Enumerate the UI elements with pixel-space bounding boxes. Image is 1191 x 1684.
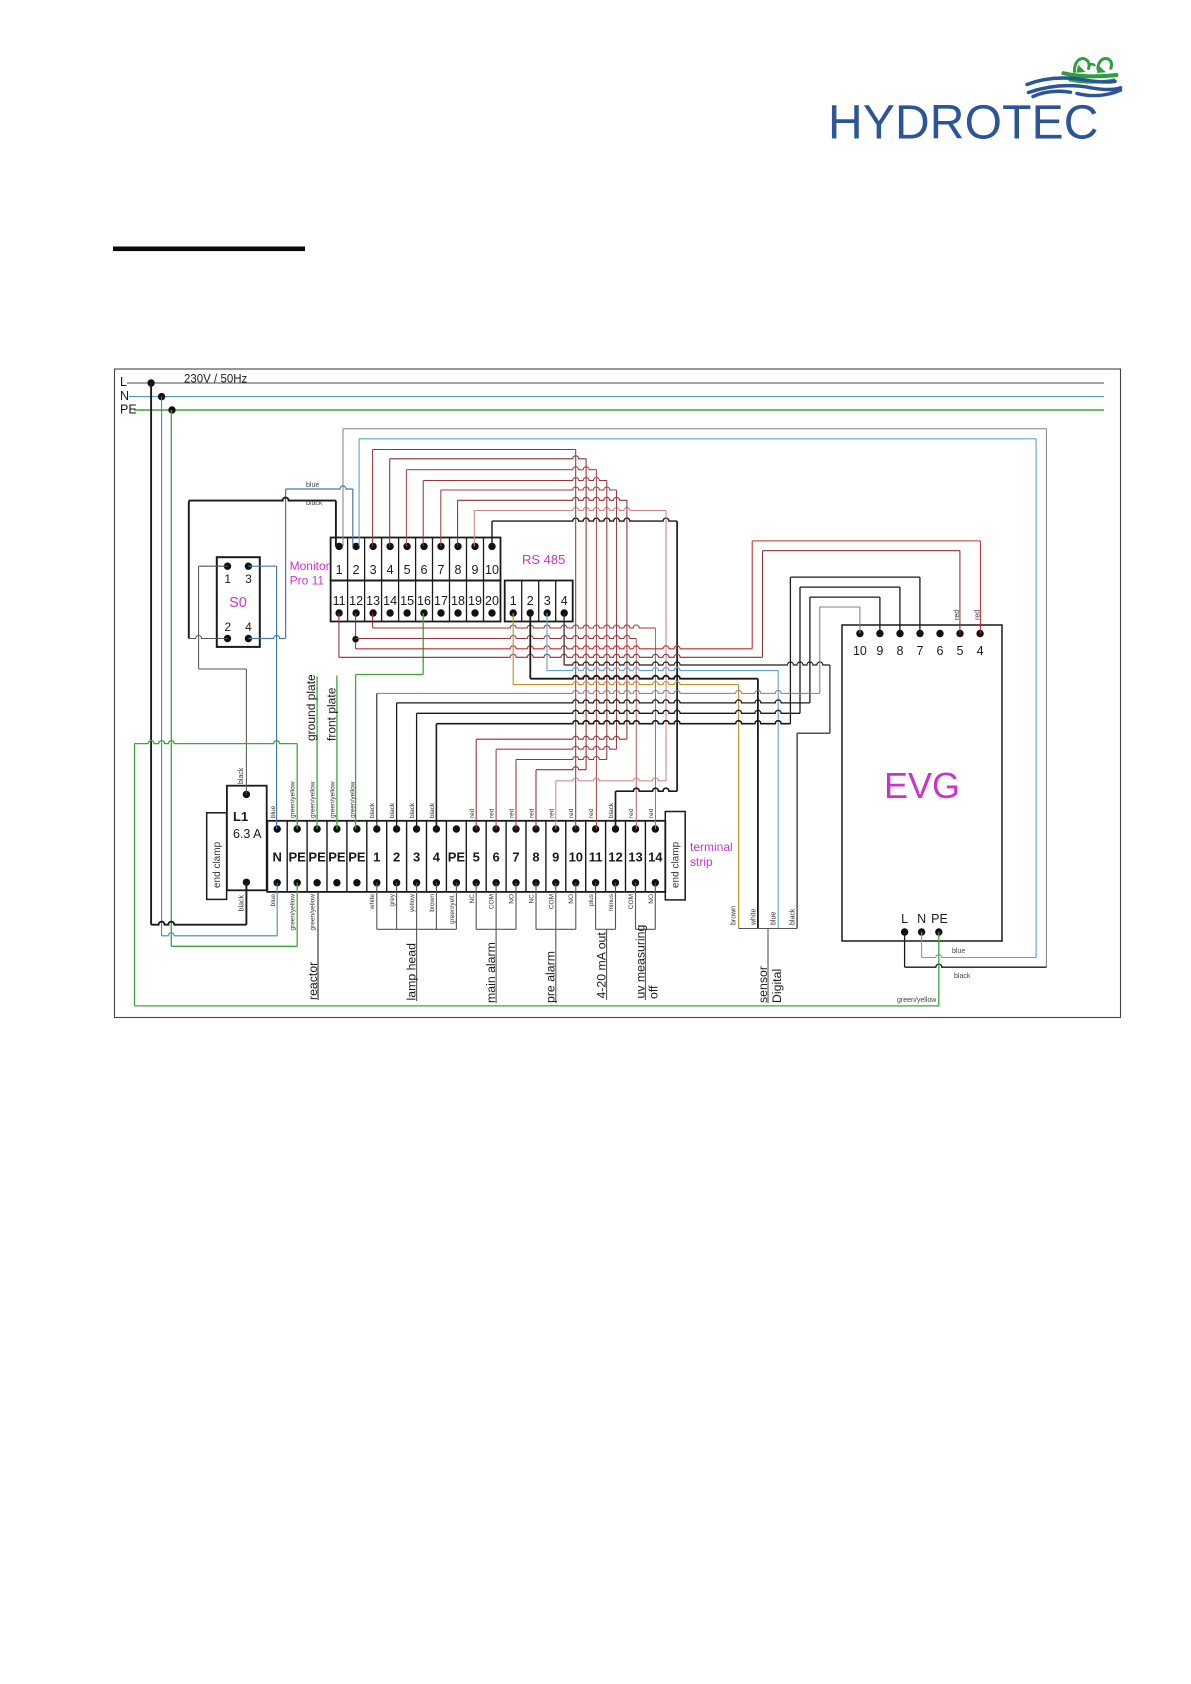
svg-text:black: black (369, 802, 376, 818)
svg-text:L: L (120, 375, 127, 389)
svg-text:green/yellow: green/yellow (310, 781, 317, 818)
svg-text:Digital: Digital (770, 969, 784, 1003)
svg-text:2: 2 (527, 594, 534, 608)
svg-text:sensor: sensor (756, 966, 770, 1003)
svg-text:10: 10 (569, 850, 583, 865)
svg-text:PE: PE (120, 403, 137, 417)
svg-text:PE: PE (328, 850, 346, 865)
svg-text:end clamp: end clamp (670, 841, 681, 888)
svg-text:15: 15 (400, 594, 414, 608)
svg-text:PE: PE (931, 912, 948, 926)
svg-text:green/yellow: green/yellow (290, 781, 297, 818)
svg-text:end clamp: end clamp (212, 841, 223, 888)
svg-text:1: 1 (336, 563, 343, 577)
svg-text:13: 13 (628, 850, 642, 865)
svg-text:red: red (548, 808, 555, 818)
svg-text:14: 14 (383, 594, 397, 608)
svg-text:L: L (901, 912, 908, 926)
svg-text:blue: blue (270, 805, 277, 818)
svg-text:black: black (239, 895, 246, 912)
svg-text:yellow: yellow (409, 894, 416, 912)
svg-text:7: 7 (917, 644, 924, 658)
svg-text:black: black (954, 973, 971, 980)
svg-text:4-20 mA out: 4-20 mA out (595, 932, 609, 999)
svg-text:black: black (306, 500, 323, 507)
svg-text:9: 9 (876, 644, 883, 658)
svg-text:9: 9 (552, 850, 559, 865)
svg-text:green/yellow: green/yellow (897, 997, 937, 1004)
svg-text:10: 10 (853, 644, 867, 658)
svg-text:5: 5 (404, 563, 411, 577)
svg-text:6: 6 (492, 850, 499, 865)
svg-text:RS 485: RS 485 (522, 552, 565, 567)
svg-text:PE: PE (289, 850, 307, 865)
svg-text:front plate: front plate (325, 687, 339, 741)
svg-text:2: 2 (224, 620, 231, 634)
svg-text:main alarm: main alarm (484, 942, 498, 1003)
svg-text:green/yellow: green/yellow (310, 894, 317, 931)
svg-text:7: 7 (438, 563, 445, 577)
svg-text:20: 20 (485, 594, 499, 608)
svg-text:plus: plus (588, 893, 595, 906)
svg-text:11: 11 (589, 850, 603, 865)
svg-text:8: 8 (897, 644, 904, 658)
svg-text:3: 3 (544, 594, 551, 608)
svg-text:NO: NO (509, 894, 516, 904)
svg-text:red: red (648, 808, 655, 818)
svg-text:black: black (429, 802, 436, 818)
svg-text:white: white (751, 909, 758, 926)
svg-text:1: 1 (373, 850, 380, 865)
svg-text:black: black (238, 767, 245, 784)
svg-text:1: 1 (224, 572, 231, 586)
svg-text:4: 4 (433, 850, 441, 865)
svg-text:uv measuring: uv measuring (633, 925, 647, 999)
svg-text:3: 3 (245, 572, 252, 586)
svg-text:brown: brown (731, 906, 738, 925)
svg-text:red: red (469, 808, 476, 818)
svg-text:12: 12 (608, 850, 622, 865)
svg-text:blue: blue (952, 948, 965, 955)
svg-text:red: red (529, 808, 536, 818)
svg-text:red: red (568, 808, 575, 818)
svg-text:red: red (628, 808, 635, 818)
svg-text:3: 3 (413, 850, 420, 865)
svg-text:lamp head: lamp head (404, 943, 418, 1001)
svg-text:S0: S0 (229, 595, 247, 611)
svg-text:4: 4 (561, 594, 568, 608)
svg-text:green/yellow: green/yellow (329, 781, 336, 818)
svg-text:6: 6 (937, 644, 944, 658)
svg-text:5: 5 (957, 644, 964, 658)
svg-text:8: 8 (455, 563, 462, 577)
svg-text:blue: blue (306, 482, 319, 489)
svg-text:brown: brown (429, 894, 436, 912)
svg-text:blue: blue (771, 912, 778, 925)
svg-text:6: 6 (421, 563, 428, 577)
svg-text:13: 13 (366, 594, 380, 608)
svg-text:Monitor: Monitor (290, 559, 330, 573)
svg-text:2: 2 (393, 850, 400, 865)
svg-text:pre alarm: pre alarm (544, 951, 558, 1003)
svg-text:terminal: terminal (690, 840, 733, 854)
svg-text:COM: COM (628, 894, 635, 909)
svg-text:green/yellow: green/yellow (290, 894, 297, 931)
svg-text:off: off (647, 985, 661, 999)
svg-text:Pro 11: Pro 11 (290, 574, 325, 588)
svg-text:NC: NC (469, 894, 476, 904)
svg-text:L1: L1 (233, 809, 248, 824)
svg-text:N: N (273, 850, 282, 865)
svg-text:EVG: EVG (884, 765, 960, 806)
svg-text:COM: COM (489, 894, 496, 909)
svg-text:COM: COM (548, 894, 555, 909)
svg-text:minus: minus (608, 893, 615, 911)
svg-text:3: 3 (370, 563, 377, 577)
svg-text:red: red (509, 808, 516, 818)
svg-text:NO: NO (568, 894, 575, 904)
svg-text:230V / 50Hz: 230V / 50Hz (184, 374, 248, 386)
svg-text:strip: strip (690, 855, 713, 869)
svg-text:black: black (790, 908, 797, 925)
svg-text:black: black (409, 802, 416, 818)
svg-text:PE: PE (308, 850, 326, 865)
svg-text:NO: NO (648, 894, 655, 904)
svg-text:black: black (608, 802, 615, 818)
svg-text:4: 4 (977, 644, 984, 658)
svg-text:white: white (369, 894, 376, 911)
svg-text:blue: blue (270, 894, 277, 907)
svg-text:12: 12 (349, 594, 363, 608)
svg-text:5: 5 (473, 850, 480, 865)
svg-text:10: 10 (485, 563, 499, 577)
svg-text:14: 14 (648, 850, 663, 865)
svg-text:PE: PE (448, 850, 466, 865)
svg-text:6.3 A: 6.3 A (233, 827, 262, 841)
svg-text:7: 7 (512, 850, 519, 865)
svg-text:black: black (389, 802, 396, 818)
svg-text:N: N (917, 912, 926, 926)
svg-text:19: 19 (468, 594, 482, 608)
svg-text:green/yellow: green/yellow (349, 781, 356, 818)
svg-text:11: 11 (333, 594, 346, 608)
svg-text:green/yell.: green/yell. (449, 894, 456, 924)
svg-text:ground plate: ground plate (304, 674, 318, 741)
svg-text:18: 18 (451, 594, 465, 608)
svg-text:17: 17 (434, 594, 448, 608)
svg-text:8: 8 (532, 850, 539, 865)
svg-text:N: N (120, 389, 129, 403)
svg-text:4: 4 (387, 563, 394, 577)
svg-text:red: red (489, 808, 496, 818)
svg-text:4: 4 (245, 620, 252, 634)
svg-text:red: red (588, 808, 595, 818)
svg-text:1: 1 (510, 594, 517, 608)
svg-text:NC: NC (529, 894, 536, 904)
svg-text:16: 16 (417, 594, 431, 608)
svg-text:PE: PE (348, 850, 366, 865)
svg-text:reactor: reactor (306, 962, 320, 1000)
svg-text:2: 2 (353, 563, 360, 577)
svg-text:grey: grey (389, 893, 396, 906)
svg-text:9: 9 (472, 563, 479, 577)
svg-text:HYDROTEC: HYDROTEC (828, 97, 1099, 150)
